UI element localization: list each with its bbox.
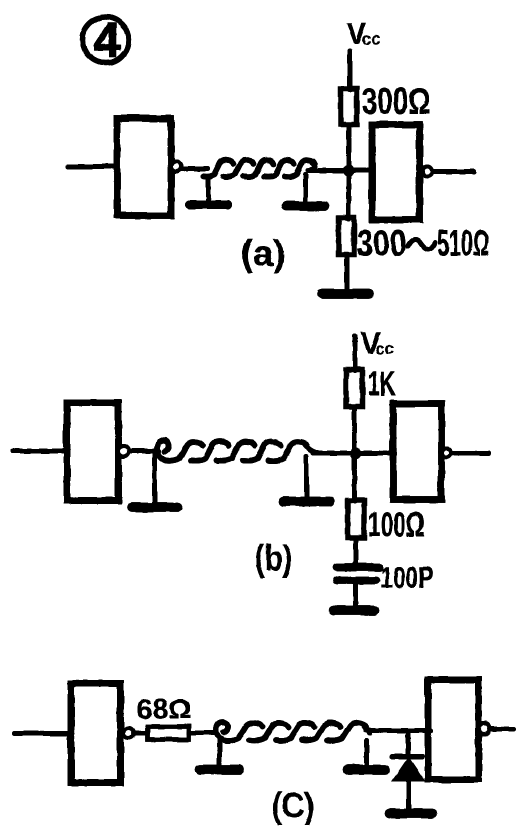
svg-text:68Ω: 68Ω bbox=[136, 693, 191, 724]
svg-text:100Ω: 100Ω bbox=[367, 505, 424, 544]
svg-text:300Ω: 300Ω bbox=[361, 80, 430, 121]
svg-text:cc: cc bbox=[375, 339, 394, 358]
svg-text:(b): (b) bbox=[254, 537, 292, 578]
svg-text:cc: cc bbox=[361, 29, 380, 48]
svg-text:510Ω: 510Ω bbox=[437, 222, 489, 263]
svg-text:300: 300 bbox=[356, 222, 406, 263]
svg-text:1K: 1K bbox=[367, 364, 395, 403]
svg-text:4: 4 bbox=[93, 14, 120, 67]
svg-text:100P: 100P bbox=[380, 561, 433, 594]
svg-text:(a): (a) bbox=[240, 232, 285, 273]
svg-text:(C): (C) bbox=[271, 784, 314, 825]
